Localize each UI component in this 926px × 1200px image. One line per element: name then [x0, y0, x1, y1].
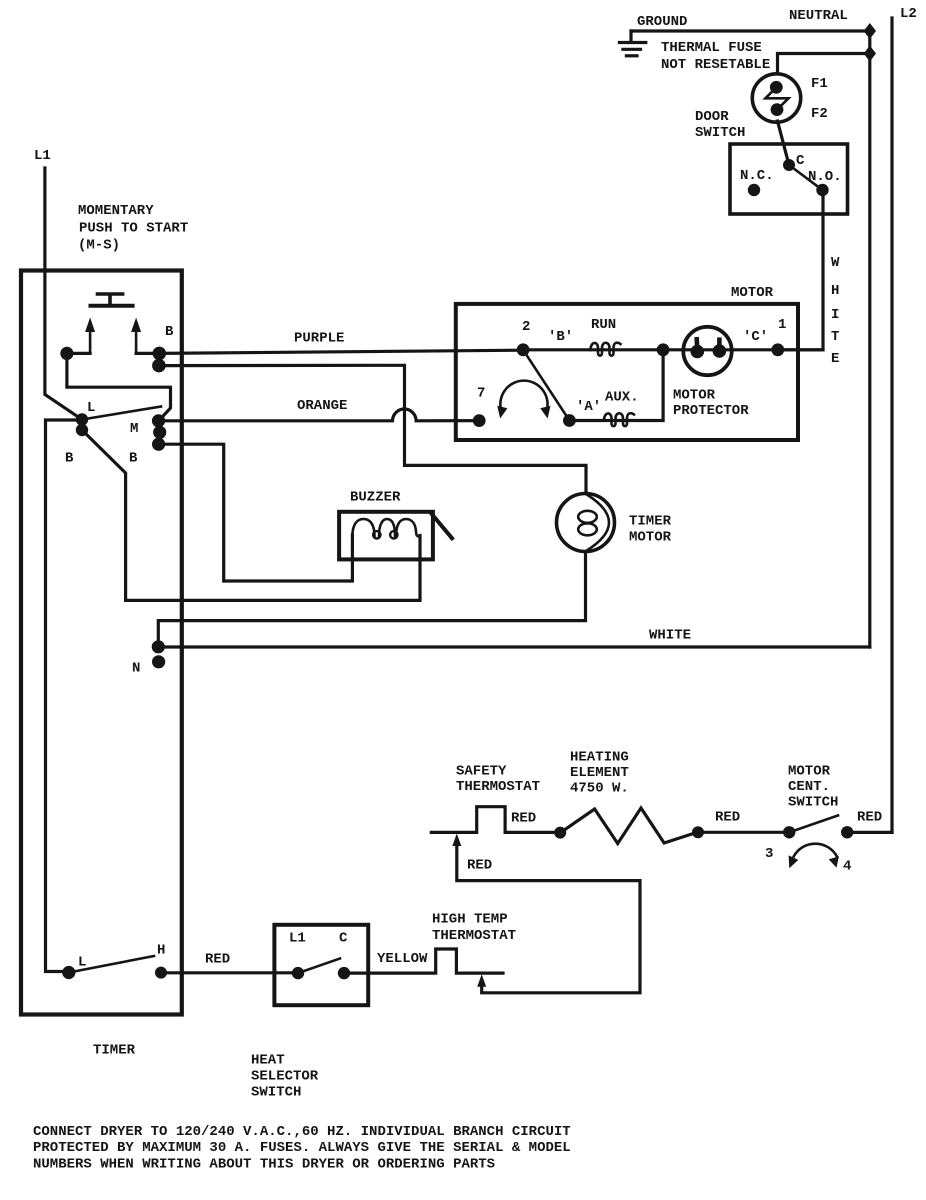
- svg-text:B: B: [165, 324, 174, 340]
- label C heat: [339, 931, 348, 947]
- terminal N.O. dot: [816, 184, 828, 196]
- svg-text:N.C.: N.C.: [740, 168, 774, 184]
- centrifugal switch arc 7-A with arrows: [497, 381, 550, 419]
- wire L contact left and down to timer L: [46, 420, 83, 972]
- wire left contact to left arrow: [67, 352, 90, 355]
- wire element to cent switch: [698, 831, 789, 834]
- label N.C.: [740, 168, 774, 184]
- wire PURPLE from B to motor terminal 2: [159, 350, 523, 353]
- wire from B bottom to timer motor top: [159, 365, 586, 493]
- motor protector circle: [683, 327, 731, 375]
- wire neutral vertical down to white wire: [868, 31, 871, 647]
- buzzer box: [339, 512, 433, 560]
- label MOTOR PROTECTOR: [673, 388, 749, 420]
- svg-text:PROTECTED BY MAXIMUM 30 A. FUS: PROTECTED BY MAXIMUM 30 A. FUSES. ALWAYS…: [33, 1140, 571, 1156]
- svg-text:RED: RED: [205, 952, 230, 968]
- label 2: [522, 319, 530, 335]
- svg-text:H: H: [157, 943, 165, 959]
- label RED timer: [205, 952, 230, 968]
- label 'A': [576, 399, 601, 415]
- terminal 3 dot: [783, 826, 795, 838]
- label HEAT SELECTOR SWITCH: [251, 1053, 319, 1101]
- label DOOR SWITCH: [695, 109, 745, 141]
- svg-text:AUX.: AUX.: [605, 390, 639, 406]
- terminal C dot: [783, 159, 795, 171]
- svg-text:PUSH TO START: PUSH TO START: [79, 221, 188, 237]
- label HIGH TEMP THERMOSTAT: [432, 912, 516, 945]
- switch blade from L bottom to buzzer return: [82, 430, 420, 600]
- heat selector switch box: [274, 925, 368, 1005]
- svg-text:NEUTRAL: NEUTRAL: [789, 8, 848, 24]
- label AUX.: [605, 390, 639, 406]
- svg-text:L2: L2: [900, 6, 917, 22]
- terminal 4 dot: [841, 826, 853, 838]
- svg-text:L: L: [87, 400, 95, 416]
- push switch arrow right: [131, 318, 141, 354]
- svg-text:1: 1: [778, 317, 786, 333]
- label MOMENTARY PUSH TO START (M-S): [78, 203, 188, 254]
- terminal B bottom dot: [152, 359, 166, 373]
- terminal N top dot: [152, 640, 165, 653]
- svg-text:M: M: [130, 421, 138, 437]
- svg-text:'C': 'C': [743, 329, 768, 345]
- svg-text:THERMOSTAT: THERMOSTAT: [456, 779, 540, 795]
- label TIMER: [93, 1043, 136, 1059]
- wire motor run line terminal2 to terminal1: [523, 348, 823, 351]
- node L1 label: [34, 148, 51, 164]
- cent switch arc with arrows: [789, 844, 839, 869]
- terminal A dot: [563, 414, 576, 427]
- svg-text:SWITCH: SWITCH: [695, 125, 745, 141]
- aux winding coil: [604, 413, 634, 426]
- label F1: [811, 76, 828, 92]
- junction dot run/aux: [657, 343, 670, 356]
- red jumper arrow under safety thermostat: [452, 834, 640, 993]
- label H timer: [157, 943, 165, 959]
- terminal timer L dot: [62, 966, 75, 979]
- wire aux line A to junction: [569, 350, 663, 421]
- terminal N.C. dot: [748, 184, 760, 196]
- label 'B': [548, 329, 573, 345]
- svg-text:SELECTOR: SELECTOR: [251, 1069, 319, 1085]
- push button symbol: [89, 294, 135, 306]
- push switch arrow left: [85, 318, 95, 354]
- svg-text:W: W: [831, 255, 840, 271]
- terminal heat C dot: [338, 967, 350, 979]
- wire timer motor bottom to N contact: [158, 552, 585, 647]
- heating element zigzag: [560, 808, 698, 844]
- node GROUND label: [637, 14, 687, 30]
- label RED right: [857, 810, 882, 826]
- svg-text:NOT RESETABLE: NOT RESETABLE: [661, 57, 770, 73]
- label RED mid: [715, 810, 740, 826]
- terminal push left dot: [60, 347, 73, 360]
- label WHITE vertical: [831, 255, 840, 367]
- label N: [132, 661, 140, 677]
- timer motor winding: [578, 494, 609, 551]
- label F2: [811, 106, 828, 122]
- heating element left dot: [554, 827, 566, 839]
- terminal F2 dot: [771, 103, 784, 116]
- label WHITE horizontal: [649, 628, 691, 644]
- label BUZZER: [350, 490, 401, 506]
- svg-text:H: H: [831, 283, 839, 299]
- heating element right dot: [692, 826, 704, 838]
- label YELLOW: [377, 951, 428, 967]
- svg-text:HIGH TEMP: HIGH TEMP: [432, 912, 508, 928]
- label MOTOR CENT. SWITCH: [788, 764, 838, 811]
- switch blade terminal2 to A: [523, 350, 569, 421]
- junction diamond neutral top: [864, 23, 876, 39]
- svg-text:BUZZER: BUZZER: [350, 490, 401, 506]
- svg-text:C: C: [796, 153, 805, 169]
- svg-text:TIMER: TIMER: [93, 1043, 136, 1059]
- svg-text:RED: RED: [511, 811, 536, 827]
- motor cent switch blade: [789, 815, 838, 832]
- wire from neutral tap to thermal fuse: [778, 54, 870, 74]
- svg-text:MOMENTARY: MOMENTARY: [78, 203, 154, 219]
- label N.O.: [808, 169, 842, 185]
- node L2 label: [900, 6, 917, 22]
- svg-text:NUMBERS WHEN WRITING ABOUT THI: NUMBERS WHEN WRITING ABOUT THIS DRYER OR…: [33, 1156, 495, 1172]
- label PURPLE: [294, 331, 344, 347]
- svg-text:HEATING: HEATING: [570, 750, 629, 766]
- svg-text:N.O.: N.O.: [808, 169, 842, 185]
- motor protector contacts: [691, 337, 727, 358]
- svg-text:L1: L1: [289, 931, 306, 947]
- wire N.O. down to motor terminal 1: [778, 190, 823, 350]
- label L (M-S common): [87, 400, 95, 416]
- svg-text:MOTOR: MOTOR: [788, 764, 831, 780]
- label MOTOR: [731, 285, 774, 301]
- label RUN: [591, 317, 616, 333]
- svg-text:'A': 'A': [576, 399, 601, 415]
- label M: [130, 421, 138, 437]
- svg-text:DOOR: DOOR: [695, 109, 729, 125]
- terminal M middle dot: [153, 426, 166, 439]
- wire YELLOW with high temp thermostat bump: [344, 949, 503, 973]
- timer low blade L to H: [74, 956, 154, 972]
- svg-text:TIMER: TIMER: [629, 514, 672, 530]
- label ORANGE: [297, 398, 347, 414]
- wire WHITE from N to neutral riser: [158, 645, 870, 648]
- svg-text:MOTOR: MOTOR: [629, 530, 672, 546]
- run winding coil: [591, 343, 621, 356]
- label B right lower: [129, 451, 138, 467]
- svg-text:THERMAL FUSE: THERMAL FUSE: [661, 40, 762, 56]
- svg-text:4: 4: [843, 859, 851, 875]
- svg-text:ORANGE: ORANGE: [297, 398, 347, 414]
- svg-text:RUN: RUN: [591, 317, 616, 333]
- label 'C': [743, 329, 768, 345]
- label 3: [765, 846, 773, 862]
- svg-text:B: B: [129, 451, 138, 467]
- svg-text:3: 3: [765, 846, 773, 862]
- svg-text:F2: F2: [811, 106, 828, 122]
- motor box: [456, 304, 798, 440]
- svg-text:L: L: [78, 955, 86, 971]
- buzzer coil: [352, 519, 420, 548]
- svg-text:MOTOR: MOTOR: [731, 285, 774, 301]
- door switch blade C to N.O.: [789, 165, 823, 190]
- thermal fuse circle: [752, 74, 800, 122]
- terminal F1 dot: [770, 81, 783, 94]
- terminal timer H dot: [155, 967, 167, 979]
- terminal heat L1 dot: [292, 967, 304, 979]
- timer assembly box: [21, 271, 182, 1015]
- svg-text:7: 7: [477, 386, 485, 402]
- terminal M bottom dot: [152, 438, 165, 451]
- svg-text:CONNECT DRYER TO 120/240 V.A.C: CONNECT DRYER TO 120/240 V.A.C.,60 HZ. I…: [33, 1124, 571, 1140]
- terminal M top dot: [152, 414, 165, 427]
- bottom note text: [33, 1124, 571, 1172]
- label THERMAL FUSE NOT RESETABLE: [661, 40, 770, 73]
- svg-text:SAFETY: SAFETY: [456, 764, 507, 780]
- label RED jumper: [467, 858, 492, 874]
- wire heating main line with safety thermostat bump: [431, 807, 560, 833]
- terminal 1 dot: [771, 343, 784, 356]
- label TIMER MOTOR: [629, 514, 672, 546]
- label HEATING ELEMENT 4750 W.: [570, 750, 629, 797]
- svg-text:C: C: [339, 931, 348, 947]
- svg-text:HEAT: HEAT: [251, 1053, 285, 1069]
- label C: [796, 153, 805, 169]
- svg-text:L1: L1: [34, 148, 51, 164]
- ground symbol: [619, 31, 645, 56]
- label L1 heat: [289, 931, 306, 947]
- wire L2 vertical line: [890, 18, 893, 832]
- terminal B top dot: [153, 347, 167, 361]
- svg-text:I: I: [831, 307, 839, 323]
- svg-text:PROTECTOR: PROTECTOR: [673, 403, 749, 419]
- svg-text:(M-S): (M-S): [78, 238, 120, 254]
- wire right arrow to B contacts: [136, 352, 159, 355]
- svg-text:RED: RED: [467, 858, 492, 874]
- terminal L bottom dot: [76, 424, 88, 436]
- label L timer: [78, 955, 86, 971]
- svg-text:ELEMENT: ELEMENT: [570, 765, 629, 781]
- terminal L top dot: [76, 413, 88, 425]
- svg-text:SWITCH: SWITCH: [788, 795, 838, 811]
- svg-text:YELLOW: YELLOW: [377, 951, 428, 967]
- heat selector blade: [298, 959, 340, 974]
- fuse element zigzag: [765, 87, 788, 109]
- timer motor circle: [557, 494, 615, 552]
- terminal 2 dot: [517, 343, 530, 356]
- svg-text:RED: RED: [857, 810, 882, 826]
- node NEUTRAL label: [789, 8, 848, 24]
- label 4: [843, 859, 851, 875]
- svg-text:THERMOSTAT: THERMOSTAT: [432, 928, 516, 944]
- svg-text:B: B: [65, 451, 74, 467]
- svg-text:N: N: [132, 661, 140, 677]
- svg-text:CENT.: CENT.: [788, 779, 830, 795]
- wire terminal4 to L2: [847, 831, 892, 834]
- svg-text:PURPLE: PURPLE: [294, 331, 344, 347]
- door switch box: [730, 144, 848, 214]
- wire ORANGE from M to motor terminal 7 with hop: [159, 409, 480, 421]
- wire neutral horizontal: [631, 29, 870, 32]
- svg-text:2: 2: [522, 319, 530, 335]
- svg-text:4750 W.: 4750 W.: [570, 781, 629, 797]
- label 7: [477, 386, 485, 402]
- svg-text:GROUND: GROUND: [637, 14, 687, 30]
- junction diamond thermal fuse tap: [864, 46, 876, 62]
- svg-text:T: T: [831, 329, 839, 345]
- svg-text:MOTOR: MOTOR: [673, 388, 716, 404]
- label RED after thermostat: [511, 811, 536, 827]
- wire RED timer H to heat selector: [161, 971, 298, 974]
- svg-text:WHITE: WHITE: [649, 628, 691, 644]
- svg-text:F1: F1: [811, 76, 828, 92]
- svg-text:SWITCH: SWITCH: [251, 1085, 301, 1101]
- buzzer striker arm: [430, 512, 453, 540]
- label B left lower: [65, 451, 74, 467]
- svg-text:'B': 'B': [548, 329, 573, 345]
- svg-text:RED: RED: [715, 810, 740, 826]
- terminal 7 dot: [473, 414, 486, 427]
- label B push-start: [165, 324, 174, 340]
- label 1: [778, 317, 786, 333]
- wire fuse to door switch C: [778, 121, 790, 165]
- wire left push contact down and over to M: [67, 353, 171, 420]
- wire L1 vertical from label down to L contact: [45, 168, 82, 420]
- wire M bottom to buzzer left terminal: [159, 444, 353, 581]
- svg-text:E: E: [831, 351, 839, 367]
- terminal N bottom dot: [152, 655, 165, 668]
- switch blade from L up-right: [82, 407, 161, 420]
- label SAFETY THERMOSTAT: [456, 764, 540, 796]
